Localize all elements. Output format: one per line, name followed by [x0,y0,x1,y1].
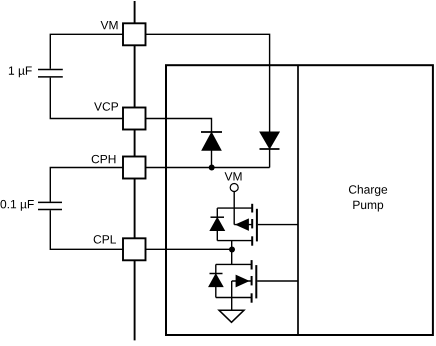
diode D1 [201,132,222,150]
charge pump block outline [166,65,433,335]
wire CPH pin left to C2 [50,168,123,202]
terminal VM circle [230,184,238,192]
junction dot CPL node [229,247,235,253]
wire D2 bottom to junction row [269,149,271,168]
wire Q1 source to Q2 drain [231,241,233,265]
pin VM [123,23,146,45]
wire CPH pin right to diode junction row [146,167,270,169]
wire Q2 source to ground [231,281,233,310]
charge pump divider line [297,65,299,335]
wire VM circle to Q1 body [233,191,235,224]
wire CPL pin right to mid node [146,248,233,250]
label VM [101,21,118,29]
capacitor C1 1uF [38,70,63,77]
transistor Q1 [217,204,257,246]
wire Q2 gate to divider [257,280,298,282]
body diode Q2 [209,264,223,297]
wire VCP pin right to D1 top [146,119,212,133]
label CPH [92,155,116,164]
wire C2 to CPL pin [50,210,123,249]
label Charge Pump [349,185,387,212]
wire C1 to VCP pin [50,78,123,119]
capacitor C2 0.1uF [38,202,62,209]
diode D2 [260,132,280,149]
pin CPH [123,157,146,179]
pin VCP [123,108,146,130]
label 0.1 uF [0,200,33,211]
wire D1 bottom to junction [211,150,213,167]
wire VM rail vertical [134,1,136,340]
label 1 uF [9,66,32,77]
junction dot CPH/diodes [209,165,215,171]
wire VM pin left to C1 [50,34,123,69]
body diode Q1 [210,208,224,241]
wire Q1 gate to divider [258,224,298,226]
wire VM pin right to D2 top [146,34,270,131]
ground [219,310,244,322]
label CPL [94,235,116,244]
transistor Q2 [216,260,256,303]
label VCP [94,102,118,111]
label VM terminal [225,172,242,180]
pin CPL [123,238,146,260]
